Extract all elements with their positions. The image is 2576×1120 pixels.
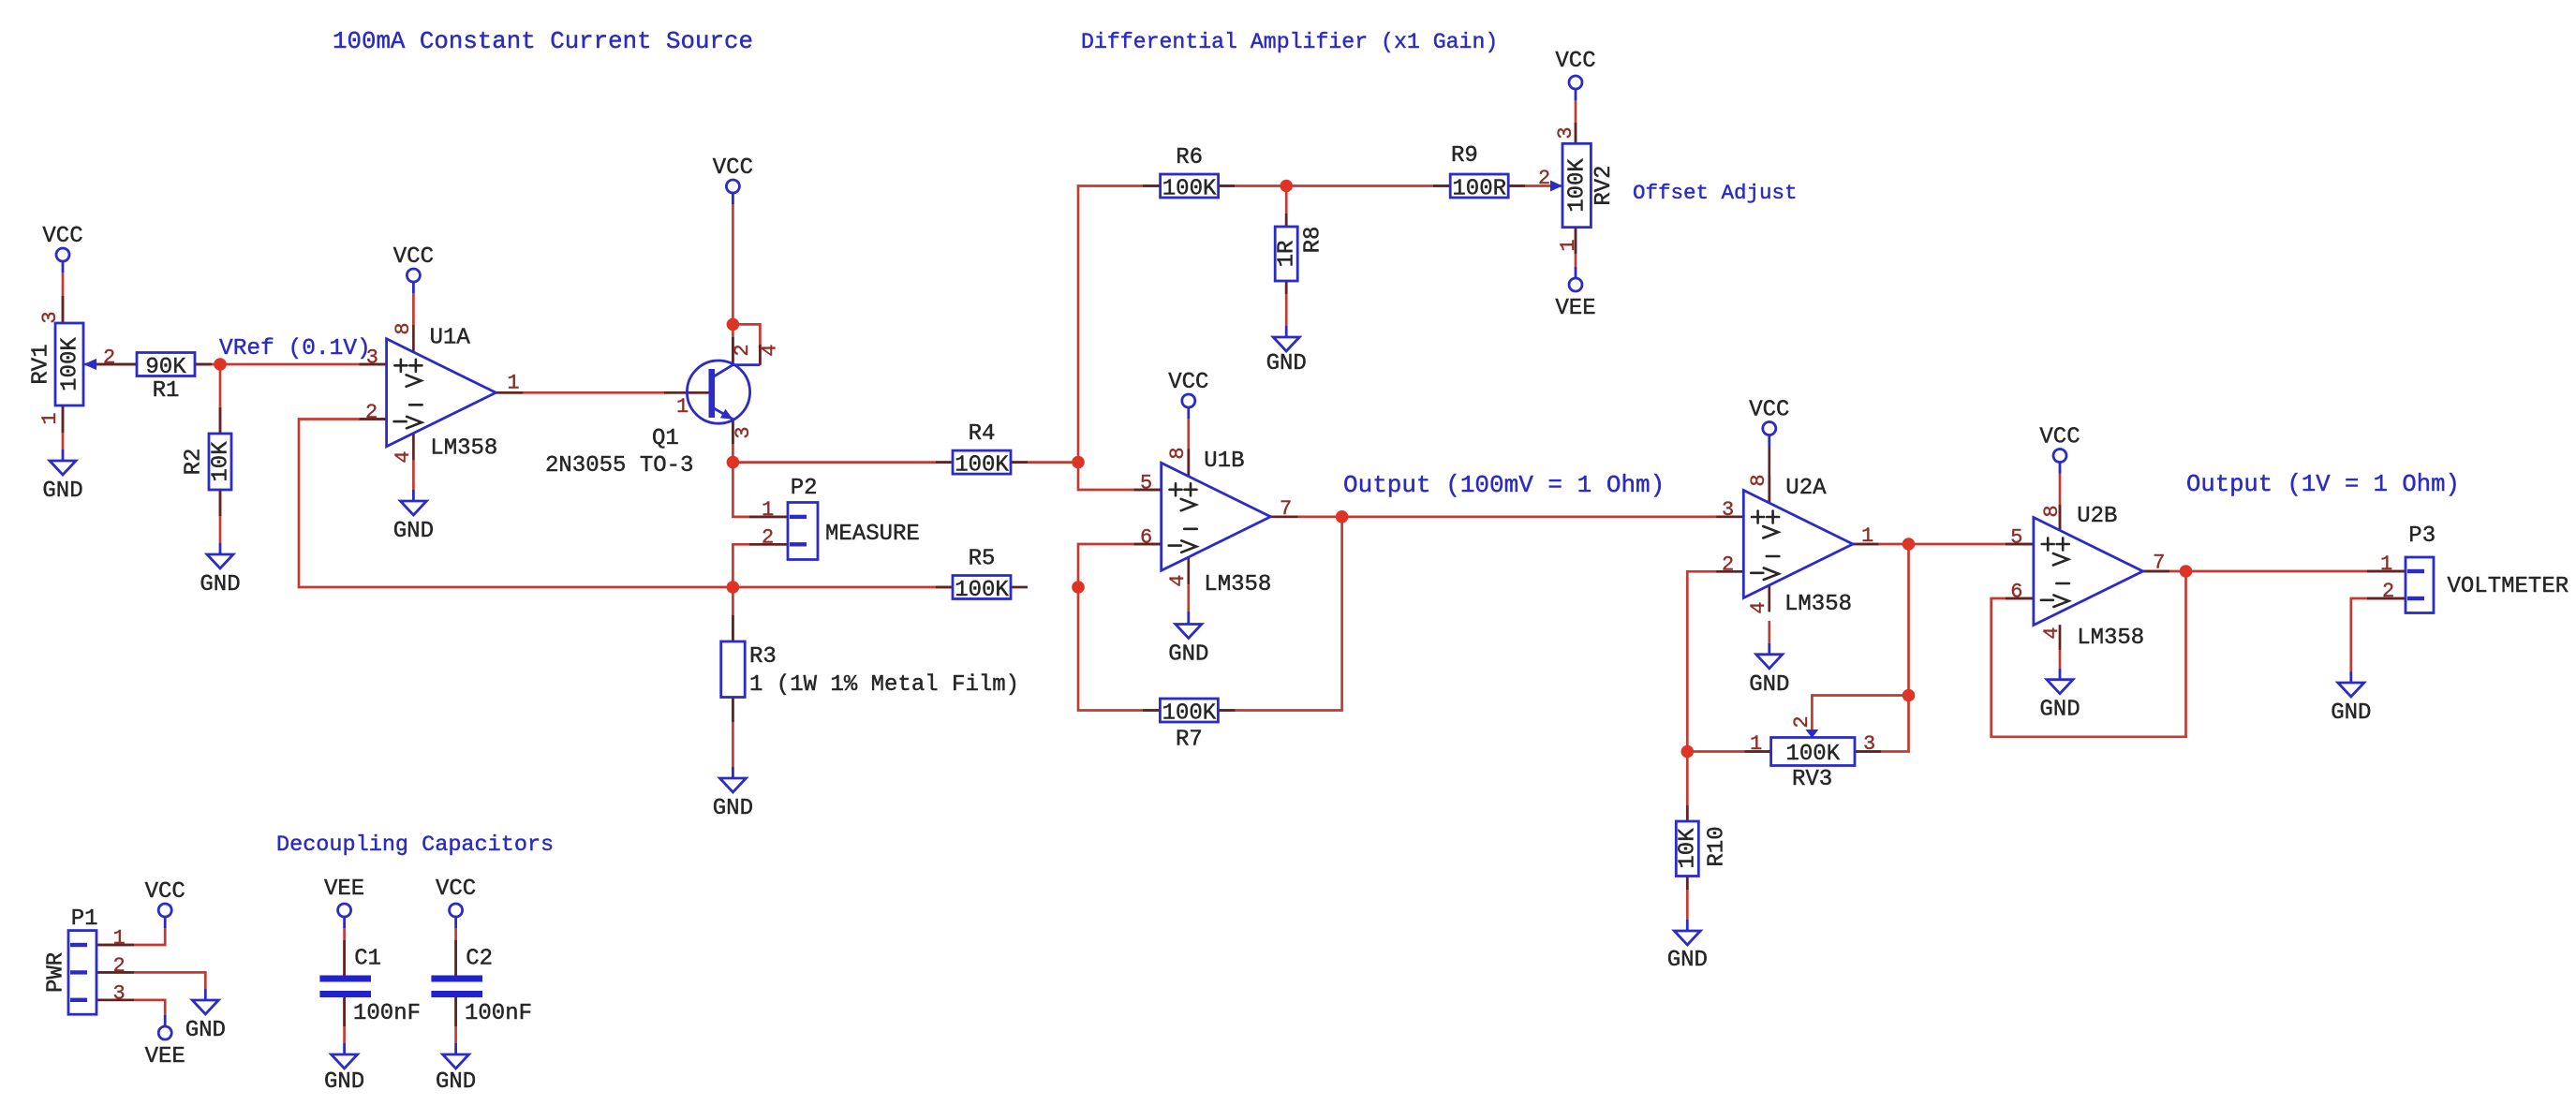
op-amp U1B LM358: [1140, 447, 1292, 597]
resistor R4 100K: [953, 421, 1011, 479]
svg-text:P1: P1: [71, 906, 98, 932]
svg-text:U1A: U1A: [430, 325, 471, 350]
capacitor C1 100nF: [319, 947, 421, 1027]
ground at RV1: [42, 449, 82, 504]
wire U1A out to Q1 base: [496, 391, 708, 394]
power VCC at RV2: [1555, 49, 1595, 100]
svg-text:100R: 100R: [1452, 177, 1506, 202]
pin R5-2: [1011, 586, 1028, 589]
power VCC at U2B: [2039, 425, 2080, 474]
ground at U2A: [1749, 621, 1789, 698]
pin Q1-1 base: [664, 391, 709, 394]
connector P1 PWR: [43, 906, 125, 1014]
svg-text:Q1: Q1: [652, 426, 679, 451]
svg-text:GND: GND: [42, 479, 82, 504]
pin R7-1: [1143, 709, 1160, 712]
svg-text:VCC: VCC: [42, 224, 82, 249]
pin U2B-5: [2006, 543, 2034, 546]
svg-text:VEE: VEE: [324, 877, 364, 902]
wire P2 pin2 down to R5 row: [733, 544, 788, 641]
resistor R1 90K: [137, 353, 195, 405]
pin U1A-2: [360, 418, 387, 420]
svg-text:4: 4: [392, 450, 415, 463]
transistor Q1 2N3055: [545, 344, 781, 479]
svg-text:R1: R1: [153, 378, 180, 404]
pin RV3-1: [1745, 750, 1771, 753]
svg-text:GND: GND: [2331, 700, 2371, 726]
svg-text:1: 1: [676, 395, 688, 419]
wire C2 to GND: [454, 997, 457, 1043]
wire VCC to RV2 pin3: [1575, 100, 1577, 143]
pin U2A-1: [1851, 543, 1878, 546]
pin RV3-3: [1855, 750, 1881, 753]
svg-text:100nF: 100nF: [465, 1001, 532, 1026]
pin R3-1: [732, 615, 734, 641]
pin RV1-3: [62, 296, 65, 323]
op-amp U1A LM358: [365, 322, 520, 463]
svg-text:3: 3: [38, 311, 62, 323]
pin P2-2: [749, 543, 788, 546]
svg-text:10K: 10K: [1676, 828, 1701, 869]
svg-text:U1B: U1B: [1204, 449, 1244, 474]
pin R8-2: [1285, 281, 1288, 294]
svg-text:C2: C2: [466, 947, 493, 972]
svg-text:VCC: VCC: [145, 879, 185, 905]
wire R2 to GND: [219, 490, 222, 543]
pin U1A-8: [412, 293, 415, 325]
ground at R3: [713, 767, 753, 821]
node P2-2 / R5 / R3 junction: [727, 581, 740, 594]
wire R7 right to output node: [1218, 517, 1341, 711]
svg-text:R8: R8: [1300, 227, 1325, 254]
svg-text:VCC: VCC: [1555, 49, 1595, 74]
svg-text:R5: R5: [969, 546, 996, 571]
capacitor C2 100nF: [431, 947, 532, 1027]
node RV3 wiper junction: [1902, 689, 1916, 702]
wire RV2 pin1 to VEE: [1575, 228, 1577, 267]
pin R5-1: [936, 586, 953, 589]
node R5 / bus junction: [1072, 581, 1085, 594]
wire U2A pin2 down to RV3 row: [1687, 571, 1743, 751]
node VRef junction: [214, 358, 227, 371]
ground at R10: [1667, 920, 1708, 973]
svg-text:2: 2: [762, 526, 774, 550]
resistor R8 1R: [1275, 227, 1326, 281]
svg-text:MEASURE: MEASURE: [825, 522, 920, 547]
svg-text:GND: GND: [436, 1069, 476, 1095]
pin R9-2: [1508, 184, 1525, 187]
svg-text:RV1: RV1: [28, 344, 53, 384]
svg-text:3: 3: [1554, 126, 1577, 139]
svg-text:VCC: VCC: [713, 155, 753, 181]
pin RV1-2 / R1-1: [96, 363, 137, 366]
wire U1A pin2 feedback to R5 row: [299, 420, 953, 588]
ground at P3: [2331, 671, 2371, 726]
resistor R3 1 Ohm: [721, 641, 1019, 698]
op-amp U2B LM358: [2010, 504, 2165, 651]
pin R10-1: [1686, 805, 1689, 821]
svg-text:6: 6: [2010, 581, 2022, 604]
svg-text:VEE: VEE: [1555, 296, 1595, 321]
svg-text:8: 8: [2040, 505, 2064, 517]
svg-text:8: 8: [1747, 474, 1770, 486]
pin R9-1: [1433, 184, 1450, 187]
pin U1A-1: [496, 391, 523, 394]
wire VCC to RV1 pin3: [62, 273, 65, 323]
pin RV2-3: [1575, 123, 1577, 143]
pin RV1-1: [62, 405, 65, 433]
svg-text:GND: GND: [713, 796, 753, 821]
wire P1 pin3 to VEE: [96, 1000, 165, 1015]
svg-text:4: 4: [1747, 601, 1770, 613]
wire VCC to Q1 collector: [732, 204, 734, 365]
svg-text:2: 2: [2382, 580, 2394, 603]
resistor R2 10K: [181, 434, 233, 490]
svg-text:4: 4: [758, 344, 781, 356]
svg-text:LM358: LM358: [1784, 592, 1852, 617]
wire R4 to vertical bus: [1011, 461, 1078, 464]
svg-text:100K: 100K: [955, 453, 1009, 479]
pin R2-1: [219, 407, 222, 434]
pin C1-2: [343, 997, 346, 1026]
potentiometer RV1 100K: [28, 311, 115, 424]
svg-text:VCC: VCC: [2039, 425, 2080, 450]
pin R4-1: [936, 461, 953, 464]
svg-text:GND: GND: [324, 1069, 364, 1095]
svg-text:100K: 100K: [57, 337, 82, 391]
svg-text:U2A: U2A: [1785, 476, 1827, 501]
svg-text:2: 2: [1790, 715, 1814, 728]
power VCC at U1A: [393, 244, 434, 293]
pin U1B-6: [1134, 543, 1162, 546]
power VCC at Q1: [713, 155, 753, 204]
pin U2B-8: [2059, 505, 2062, 531]
ground at R2: [200, 543, 240, 597]
pin P1-3: [96, 998, 134, 1001]
pin Q1-4: [759, 345, 762, 365]
svg-text:VCC: VCC: [436, 877, 476, 902]
wire RV3 pin1: [1687, 750, 1770, 753]
wire VCC to U2A pin8: [1768, 447, 1770, 504]
svg-text:GND: GND: [200, 572, 240, 597]
pin U1A-4: [412, 434, 415, 461]
pin R6-2: [1218, 184, 1235, 187]
svg-text:3: 3: [1863, 732, 1875, 756]
pin U2A-2: [1716, 570, 1743, 573]
pin P1-1: [96, 944, 134, 947]
svg-text:LM358: LM358: [2077, 626, 2144, 651]
svg-text:GND: GND: [1266, 351, 1307, 376]
connector P2 MEASURE: [762, 476, 920, 560]
node U2A pin2 / RV3 / R10 junction: [1681, 745, 1695, 759]
node U2A output junction: [1902, 538, 1916, 551]
pin U1A-3: [360, 363, 387, 366]
svg-text:8: 8: [392, 322, 415, 334]
pin R7-2: [1218, 709, 1235, 712]
svg-text:90K: 90K: [145, 355, 186, 380]
svg-text:R10: R10: [1704, 826, 1729, 866]
node U1B output junction: [1336, 510, 1349, 523]
wire R9 to RV2 wiper: [1508, 184, 1562, 187]
pin R2-2: [219, 490, 222, 516]
power VEE at C1: [324, 877, 364, 928]
svg-text:P2: P2: [791, 476, 818, 501]
pin U2A-3: [1716, 515, 1743, 518]
pin U2B-4: [2059, 625, 2062, 650]
svg-text:R4: R4: [969, 421, 996, 447]
wire R8 bottom to GND: [1285, 281, 1288, 326]
wire RV3 wiper branch: [1812, 696, 1908, 732]
pin U1B-4: [1187, 557, 1190, 584]
svg-text:2N3055 TO-3: 2N3055 TO-3: [545, 453, 693, 479]
wire R8 top: [1285, 186, 1288, 228]
pin U1B-7: [1270, 515, 1297, 518]
svg-text:1: 1: [38, 412, 62, 424]
svg-text:R2: R2: [181, 449, 206, 476]
svg-text:GND: GND: [393, 519, 434, 544]
wire R1 to U1A pin3 (VRef): [195, 363, 387, 366]
wire VCC to C2: [454, 928, 457, 976]
wire VCC to U2B pin8: [2059, 474, 2062, 531]
resistor R7 100K: [1160, 699, 1218, 753]
svg-text:R7: R7: [1176, 728, 1203, 753]
pin R10-2: [1686, 877, 1689, 891]
svg-text:3: 3: [113, 981, 126, 1005]
wire RV1 wiper to R1: [83, 363, 137, 366]
svg-text:10K: 10K: [208, 441, 233, 482]
svg-text:2: 2: [1722, 553, 1734, 577]
wire U2B pin6 feedback loop: [1991, 571, 2186, 737]
svg-text:1 (1W 1% Metal Film): 1 (1W 1% Metal Film): [749, 672, 1019, 698]
pin C1-1: [343, 940, 346, 976]
svg-text:PWR: PWR: [43, 952, 68, 993]
resistor R5 100K: [953, 546, 1011, 603]
svg-text:6: 6: [1140, 526, 1152, 550]
svg-text:100K: 100K: [1162, 177, 1217, 202]
svg-text:1: 1: [1557, 239, 1580, 251]
connector P3 VOLTMETER: [2380, 523, 2569, 613]
resistor R6 100K: [1161, 145, 1219, 202]
pin U2B-6: [2006, 597, 2034, 600]
wire R6 to R9: [1218, 184, 1451, 187]
svg-text:R6: R6: [1176, 145, 1203, 170]
svg-text:7: 7: [2153, 552, 2165, 575]
potentiometer RV3 100K: [1750, 715, 1875, 792]
pin P3-1: [2367, 570, 2406, 573]
resistor R10 10K: [1676, 821, 1730, 877]
ground at U1A: [393, 490, 434, 544]
svg-text:LM358: LM358: [430, 435, 497, 461]
wire RV3 pin3 up to U2A out: [1855, 544, 1909, 752]
svg-text:1R: 1R: [1275, 241, 1300, 268]
wire U1B out to U2A pin3: [1272, 515, 1743, 518]
svg-text:3: 3: [1722, 498, 1734, 522]
svg-text:U2B: U2B: [2077, 504, 2117, 529]
pin R1-2: [195, 363, 212, 366]
svg-text:4: 4: [2040, 626, 2064, 639]
pin R4-2: [1011, 461, 1028, 464]
svg-text:GND: GND: [1749, 672, 1789, 698]
svg-text:VCC: VCC: [393, 244, 434, 270]
svg-text:1: 1: [2380, 553, 2392, 576]
wire U1B pin6 / vertical to R7: [1078, 544, 1162, 711]
pin U2A-8: [1768, 477, 1770, 504]
svg-text:GND: GND: [1667, 948, 1708, 973]
svg-text:7: 7: [1280, 497, 1292, 521]
power VCC at RV1: [42, 224, 82, 273]
svg-text:2: 2: [731, 344, 754, 356]
svg-text:VCC: VCC: [1168, 370, 1208, 395]
pin R8-1: [1285, 214, 1288, 227]
wire R3 to GND: [732, 697, 734, 767]
wire RV1 pin1 to GND: [62, 405, 65, 449]
svg-text:Output (100mV = 1 Ohm): Output (100mV = 1 Ohm): [1343, 471, 1665, 499]
svg-text:1: 1: [762, 498, 774, 522]
pin Q1-2: [732, 337, 734, 365]
wire P3 pin2 to GND: [2351, 598, 2406, 671]
ground at U1B: [1168, 612, 1208, 667]
svg-text:100K: 100K: [955, 578, 1009, 603]
svg-text:Offset Adjust: Offset Adjust: [1633, 181, 1798, 205]
wire P1 pin2 to GND: [96, 972, 205, 989]
wire U2A out to U2B pin5: [1851, 543, 2033, 546]
wire C1 to GND: [343, 997, 346, 1043]
node Q1 emitter / R4 junction: [727, 456, 740, 469]
wire R10 to GND: [1686, 877, 1689, 921]
wire VRef node to R2: [219, 364, 222, 434]
wire RV3 row to R10: [1686, 752, 1689, 822]
svg-text:5: 5: [1140, 472, 1152, 495]
svg-text:Differential Amplifier (x1 Gai: Differential Amplifier (x1 Gain): [1081, 30, 1498, 54]
wire emitter node to R4: [733, 461, 953, 464]
wire U2B out to P3 pin1: [2142, 570, 2406, 573]
pin R3-2: [732, 697, 734, 722]
node U2B output junction: [2180, 565, 2193, 578]
power VEE at P1: [145, 1015, 185, 1069]
svg-text:2: 2: [365, 401, 378, 424]
wire R6 left / vertical to U1B pin5: [1078, 186, 1162, 491]
pin P1-2: [96, 971, 134, 974]
pin R6-1: [1143, 184, 1161, 187]
node R4 / bus junction: [1072, 456, 1085, 469]
svg-text:VRef (0.1V): VRef (0.1V): [219, 336, 371, 361]
svg-text:R9: R9: [1451, 143, 1478, 169]
ground at R8: [1266, 326, 1307, 376]
pin U1B-5: [1134, 489, 1162, 492]
pin U2A-4: [1768, 584, 1770, 612]
svg-text:100K: 100K: [1162, 701, 1217, 727]
svg-text:VOLTMETER: VOLTMETER: [2448, 574, 2569, 599]
ground at C1: [324, 1043, 364, 1095]
pin P2-1: [749, 516, 788, 519]
ground at U2B: [2039, 650, 2080, 723]
power VCC at P1: [145, 879, 185, 928]
svg-text:100mA Constant Current Source: 100mA Constant Current Source: [333, 28, 753, 55]
wire P1 pin1 to VCC: [96, 928, 165, 945]
wire Q1 emitter down and to P2 pin1: [733, 420, 788, 517]
svg-text:R3: R3: [749, 644, 777, 670]
svg-text:2: 2: [113, 954, 126, 978]
wire VEE to C1: [343, 928, 346, 976]
svg-text:P3: P3: [2408, 523, 2435, 549]
svg-text:3: 3: [732, 426, 755, 438]
svg-text:1: 1: [1861, 524, 1873, 548]
svg-text:RV3: RV3: [1792, 767, 1832, 792]
svg-text:8: 8: [1166, 447, 1190, 459]
node Q1 collector junction: [727, 318, 740, 332]
pin C2-2: [454, 997, 457, 1026]
pin Q1-3 emitter: [732, 420, 734, 444]
svg-text:VCC: VCC: [1749, 398, 1789, 423]
svg-text:RV2: RV2: [1591, 165, 1617, 205]
svg-text:GND: GND: [2039, 698, 2080, 723]
svg-text:Decoupling Capacitors: Decoupling Capacitors: [276, 833, 554, 858]
node R6 / R8 / R9 junction: [1280, 180, 1293, 193]
svg-text:C1: C1: [354, 947, 381, 972]
svg-text:2: 2: [1538, 167, 1550, 190]
power VCC at C2: [436, 877, 476, 928]
svg-text:Output (1V = 1 Ohm): Output (1V = 1 Ohm): [2186, 471, 2460, 498]
wire Q1 collector loop pin2-pin4: [733, 324, 760, 364]
svg-text:1: 1: [507, 371, 519, 394]
svg-text:100nF: 100nF: [353, 1001, 421, 1026]
ground at P1: [185, 989, 226, 1043]
svg-text:1: 1: [1750, 732, 1762, 756]
svg-text:100K: 100K: [1785, 742, 1840, 767]
potentiometer RV2 100K: [1538, 126, 1617, 251]
svg-text:3: 3: [366, 346, 378, 370]
pin U2B-7: [2142, 570, 2169, 573]
op-amp U2A LM358: [1722, 474, 1873, 617]
power VEE at RV2: [1555, 267, 1595, 321]
pin P3-2: [2367, 597, 2406, 600]
svg-text:1: 1: [113, 927, 126, 951]
svg-text:GND: GND: [185, 1018, 226, 1043]
svg-text:LM358: LM358: [1204, 572, 1271, 597]
resistor R9 100R: [1450, 143, 1508, 202]
svg-text:VEE: VEE: [145, 1044, 185, 1069]
power VCC at U1B: [1168, 370, 1208, 419]
wire VCC to U1B pin8: [1187, 419, 1190, 476]
power VCC at U2A: [1749, 398, 1789, 448]
svg-text:GND: GND: [1168, 642, 1208, 668]
pin C2-1: [454, 940, 457, 976]
pin RV2-1: [1575, 228, 1577, 254]
pin U1B-8: [1187, 449, 1190, 476]
svg-text:4: 4: [1166, 574, 1190, 586]
svg-text:5: 5: [2010, 526, 2022, 550]
svg-text:2: 2: [103, 346, 115, 370]
svg-text:100K: 100K: [1565, 158, 1591, 213]
ground at C2: [436, 1043, 476, 1095]
